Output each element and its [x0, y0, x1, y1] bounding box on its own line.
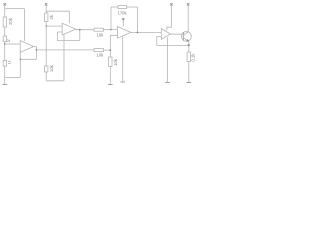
wire — [188, 62, 190, 83]
emitter arrow — [187, 39, 189, 41]
svg-text:2k: 2k — [7, 39, 11, 43]
rail wire — [5, 76, 21, 78]
ground GND2 — [108, 84, 113, 86]
wire feedback3 right — [127, 7, 138, 32]
ground GND1 — [2, 83, 7, 85]
terminal VS4 — [187, 3, 189, 5]
resistor R1 — [3, 17, 6, 27]
svg-text:20k: 20k — [8, 17, 13, 25]
op-amp U3 — [117, 27, 130, 39]
wire — [4, 66, 6, 84]
resistor R7 — [118, 6, 127, 9]
wire op4 V- pin — [167, 37, 169, 82]
svg-text:10k: 10k — [49, 64, 54, 72]
terminal op3 V+ — [122, 18, 124, 20]
node dots — [4, 25, 138, 60]
wire op4 output to base — [170, 33, 183, 35]
resistor R9 — [109, 57, 112, 67]
wire — [45, 5, 47, 13]
wire feedback horizontal — [20, 58, 36, 60]
ground GND4 — [165, 81, 170, 83]
wire node to op1 + input — [5, 43, 21, 45]
svg-text:10k: 10k — [113, 58, 118, 66]
svg-text:2k: 2k — [49, 14, 54, 19]
resistor R3 — [3, 61, 6, 67]
node emitter junction — [188, 44, 190, 46]
op-amp U1 — [20, 41, 34, 53]
wire feedback3 top — [111, 6, 118, 8]
transistor collector — [183, 6, 188, 36]
wire — [4, 27, 6, 36]
wire op3 V- pin — [122, 37, 124, 82]
resistor R4 — [45, 13, 48, 22]
wire — [4, 42, 6, 61]
wire feedback3 left — [110, 7, 112, 30]
wire minus chain — [19, 52, 21, 78]
wire to op3 minus — [104, 29, 118, 31]
terminal VS2 — [45, 3, 48, 6]
resistor R10 — [187, 52, 190, 62]
op-amp U2 — [62, 23, 75, 35]
transistor emitter — [183, 38, 189, 45]
wire op3 output — [131, 31, 161, 33]
wire op3 V+ pin — [122, 20, 124, 27]
terminal VS3 — [170, 3, 172, 5]
wire op1 output — [34, 47, 37, 60]
terminal VS1 — [4, 3, 7, 6]
wire — [4, 5, 6, 17]
wire node B to op2 minus — [46, 25, 62, 27]
svg-text:1k: 1k — [8, 60, 12, 64]
wire — [109, 67, 111, 85]
wire op1 V+ — [5, 9, 25, 41]
ground GND3 — [120, 81, 125, 83]
wire — [46, 35, 64, 81]
node out1 — [36, 49, 94, 51]
wire op4 V+ — [167, 6, 172, 31]
wire op2 plus feedback — [57, 30, 79, 41]
op-amp U4 — [161, 29, 170, 40]
svg-text:0.1k: 0.1k — [191, 53, 196, 62]
wire emitter down — [188, 45, 190, 52]
transistor Q1 — [182, 32, 192, 42]
wire divider node B — [45, 22, 47, 67]
wire op4 plus feedback — [157, 36, 189, 45]
svg-text:10k: 10k — [97, 33, 105, 38]
resistor R5 — [45, 66, 48, 72]
resistor R2 — [3, 36, 6, 42]
resistor R6 — [94, 28, 104, 31]
wire plus chain — [104, 35, 118, 50]
svg-text:10k: 10k — [97, 53, 105, 58]
resistor R8 — [94, 49, 104, 52]
wire op2 V+ — [46, 11, 69, 23]
wire op2 output — [76, 29, 94, 31]
ground GND5 — [187, 82, 192, 84]
svg-text:170k: 170k — [118, 11, 128, 16]
wire divider down — [109, 50, 111, 57]
transistor base bar — [182, 32, 184, 41]
